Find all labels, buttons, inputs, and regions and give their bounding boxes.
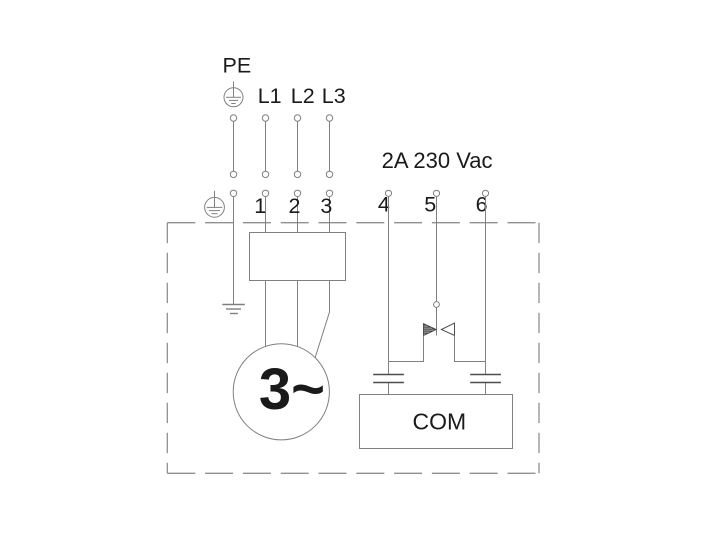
terminal L3 lower (326, 190, 332, 196)
dashed enclosure top edge (167, 222, 539, 224)
wire L1 upper (265, 121, 267, 171)
wire 5 gate upper (436, 196, 438, 301)
ground symbol PE (222, 305, 245, 314)
svg-text:3~: 3~ (259, 357, 325, 422)
svg-text:L2: L2 (291, 84, 315, 108)
terminal L1 top (262, 115, 268, 121)
capacitor C1 plates (373, 375, 404, 383)
svg-text:2A 230 Vac: 2A 230 Vac (382, 148, 493, 173)
dashed enclosure left edge (166, 223, 168, 474)
terminal L3 mid (326, 171, 332, 177)
wire PE upper (233, 121, 235, 171)
triac left leg (389, 336, 424, 362)
svg-text:3: 3 (320, 194, 332, 218)
triac right leg (455, 336, 486, 362)
wire block to motor U (265, 281, 267, 347)
dashed enclosure bottom edge (167, 472, 539, 474)
terminal PE lower (230, 190, 236, 196)
wire block to motor W (315, 281, 329, 358)
triac left triangle (filled) (424, 324, 437, 336)
svg-text:5: 5 (424, 192, 436, 216)
triac right triangle (open) (441, 323, 454, 335)
svg-text:PE: PE (223, 54, 252, 78)
motor circle (233, 344, 329, 440)
svg-text:L3: L3 (322, 84, 346, 108)
svg-text:1: 1 (254, 194, 266, 218)
terminal block (250, 233, 346, 281)
terminal 4 (385, 190, 391, 196)
svg-text:COM: COM (412, 409, 466, 435)
svg-text:L1: L1 (258, 84, 282, 108)
terminal L2 top (294, 115, 300, 121)
terminal PE top (230, 115, 236, 121)
terminal L1 lower (262, 190, 268, 196)
wire L3 upper (329, 121, 331, 171)
wire block to motor V (297, 281, 299, 347)
wire 4 upper (388, 196, 390, 374)
wire 6 upper (485, 196, 487, 374)
terminal L1 mid (262, 171, 268, 177)
gate node circle (434, 302, 440, 308)
wire terminal 3 to block (329, 197, 331, 233)
COM box (360, 395, 513, 449)
terminal 6 (482, 190, 488, 196)
terminal L2 lower (294, 190, 300, 196)
wire 4 lower (388, 383, 390, 395)
wire PE to ground (233, 197, 235, 305)
terminal L2 mid (294, 171, 300, 177)
terminal L3 top (326, 115, 332, 121)
protective earth symbol (in circle) top (224, 82, 243, 107)
wire 6 lower (485, 383, 487, 395)
wire 5 gate lower (436, 307, 438, 335)
terminal PE mid (230, 171, 236, 177)
wire terminal 1 to block (265, 197, 267, 233)
wire L2 upper (297, 121, 299, 171)
terminal 5 (433, 190, 439, 196)
wire terminal 2 to block (297, 197, 299, 233)
svg-text:2: 2 (289, 194, 301, 218)
protective earth symbol (in circle) at enclosure (205, 191, 225, 218)
capacitor C2 plates (470, 375, 501, 383)
dashed enclosure right edge (538, 223, 540, 474)
